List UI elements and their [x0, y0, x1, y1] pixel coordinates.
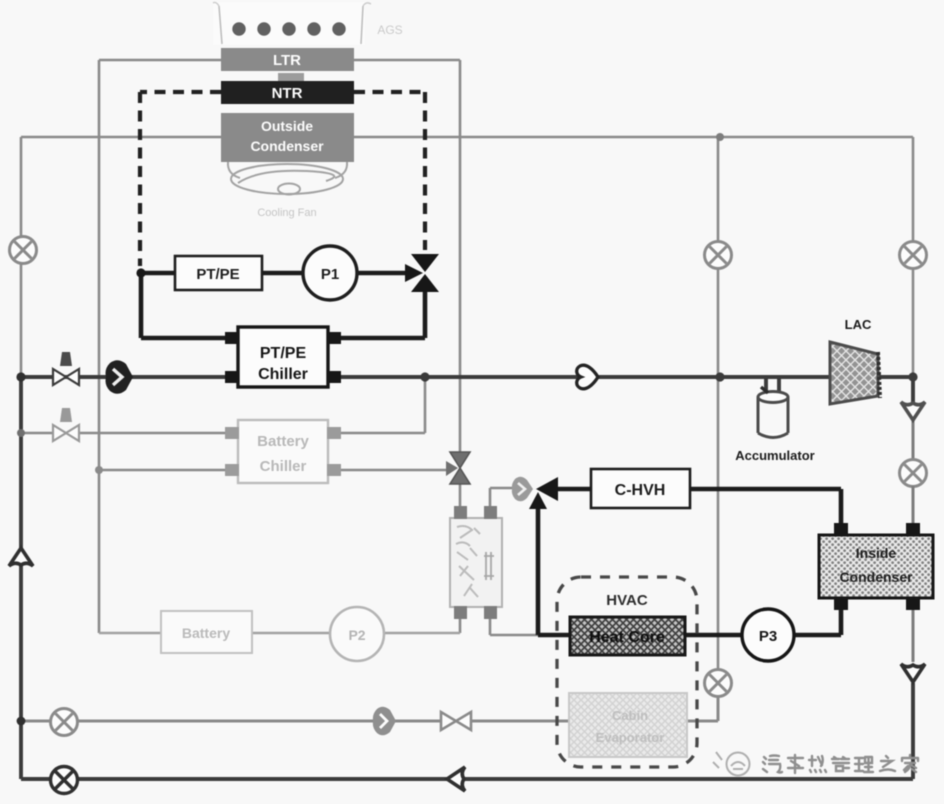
svg-text:Condenser: Condenser — [839, 569, 913, 585]
svg-text:P1: P1 — [321, 266, 339, 283]
svg-text:Cabin: Cabin — [612, 708, 648, 723]
svg-text:LTR: LTR — [273, 52, 301, 69]
svg-text:P2: P2 — [348, 627, 365, 643]
svg-text:Cooling Fan: Cooling Fan — [257, 207, 316, 219]
svg-text:LAC: LAC — [845, 317, 872, 332]
svg-text:AGS: AGS — [377, 23, 402, 37]
svg-text:Inside: Inside — [856, 545, 897, 561]
svg-text:PT/PE: PT/PE — [260, 345, 307, 362]
svg-text:Evaporator: Evaporator — [596, 730, 665, 745]
svg-text:Battery: Battery — [182, 625, 230, 641]
svg-text:NTR: NTR — [272, 85, 303, 102]
svg-text:Condenser: Condenser — [250, 138, 324, 154]
svg-text:C-HVH: C-HVH — [615, 482, 666, 499]
svg-text:HVAC: HVAC — [606, 592, 648, 609]
svg-text:P3: P3 — [759, 628, 777, 645]
svg-text:Battery: Battery — [257, 433, 309, 450]
svg-text:Heat Core: Heat Core — [589, 629, 665, 646]
svg-text:Accumulator: Accumulator — [735, 448, 814, 463]
svg-text:Outside: Outside — [261, 118, 313, 134]
svg-text:PT/PE: PT/PE — [196, 266, 239, 283]
svg-text:Chiller: Chiller — [260, 458, 307, 475]
svg-text:Chiller: Chiller — [258, 366, 308, 383]
